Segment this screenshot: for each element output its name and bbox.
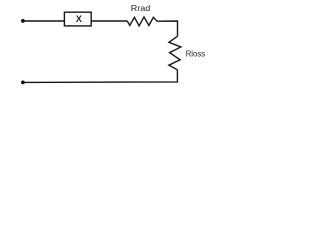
resistor Rloss (169, 36, 181, 69)
svg-text:Rloss: Rloss (186, 48, 205, 58)
wire Rloss to bottom-left (24, 70, 177, 83)
node top-left terminal (21, 19, 25, 23)
resistor Rrad (127, 17, 157, 26)
node bottom-left terminal (21, 81, 25, 85)
svg-text:X: X (76, 14, 82, 24)
block X (64, 12, 91, 26)
svg-text:Rrad: Rrad (131, 3, 151, 13)
wire block to Rrad (91, 20, 127, 22)
wire Rrad to top-right corner (157, 21, 178, 36)
wire top-left to block (25, 20, 65, 22)
